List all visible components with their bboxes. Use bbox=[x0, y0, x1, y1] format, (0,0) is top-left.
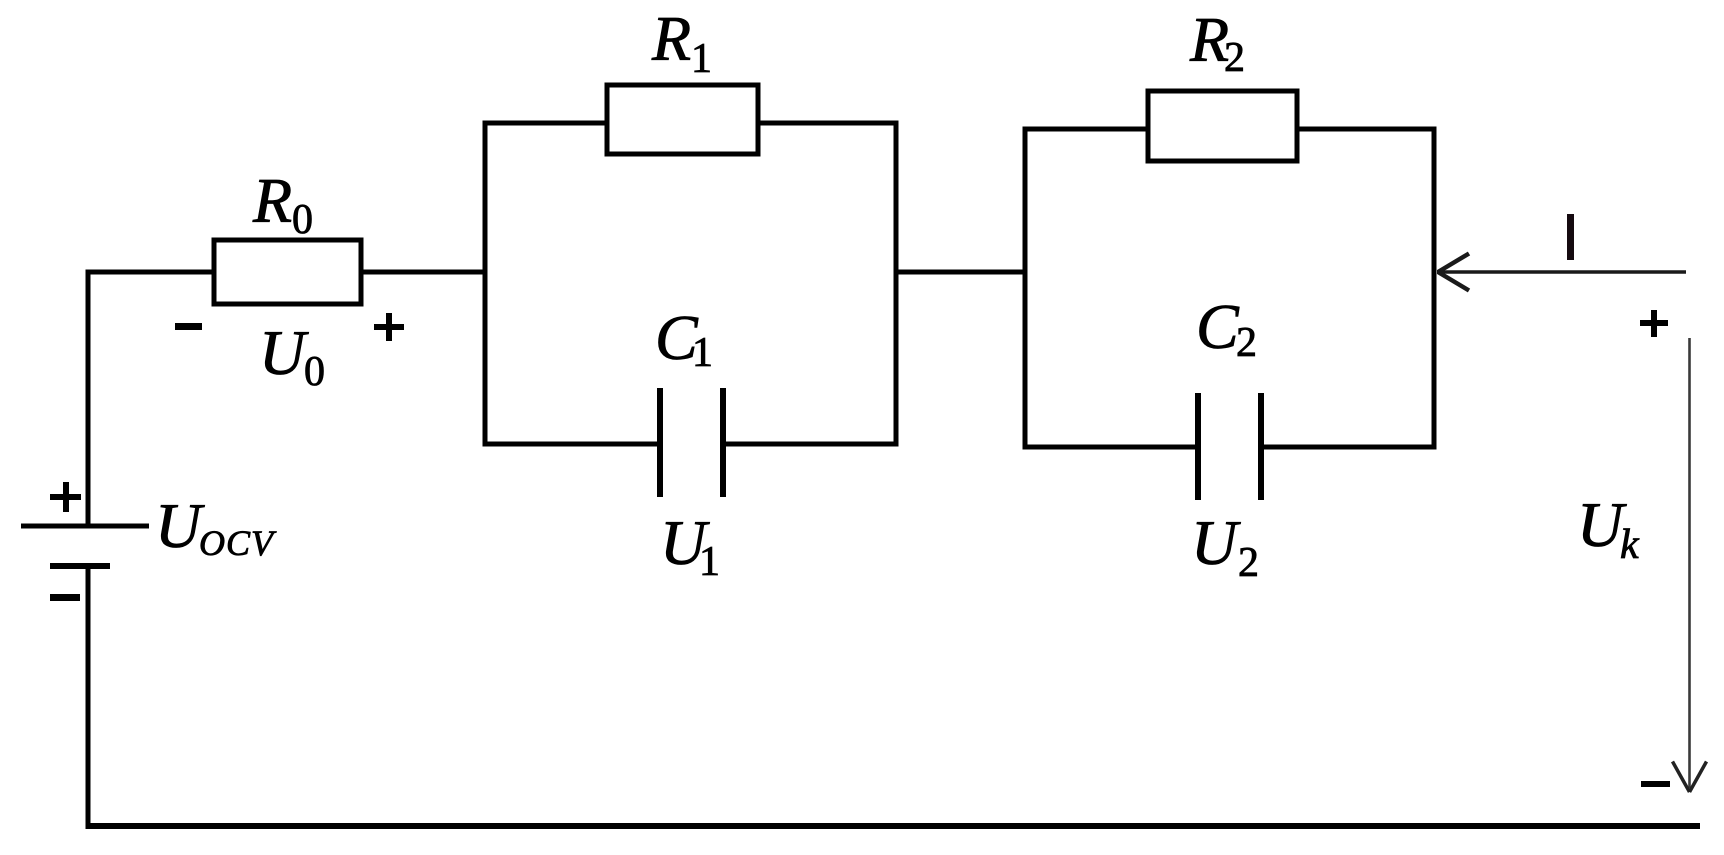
svg-text:0: 0 bbox=[292, 197, 313, 243]
svg-text:R: R bbox=[252, 165, 292, 236]
svg-text:0: 0 bbox=[304, 349, 325, 395]
svg-text:OCV: OCV bbox=[199, 523, 277, 563]
svg-text:1: 1 bbox=[691, 36, 712, 82]
svg-text:R: R bbox=[651, 3, 691, 74]
svg-text:k: k bbox=[1620, 522, 1640, 568]
svg-text:1: 1 bbox=[692, 330, 713, 376]
svg-text:U: U bbox=[1191, 507, 1241, 578]
svg-text:U: U bbox=[155, 490, 205, 561]
svg-text:2: 2 bbox=[1238, 540, 1259, 586]
svg-text:C: C bbox=[1196, 291, 1240, 362]
svg-text:2: 2 bbox=[1224, 35, 1245, 81]
svg-text:2: 2 bbox=[1236, 320, 1257, 366]
svg-text:1: 1 bbox=[699, 539, 720, 585]
svg-text:U: U bbox=[259, 317, 309, 388]
